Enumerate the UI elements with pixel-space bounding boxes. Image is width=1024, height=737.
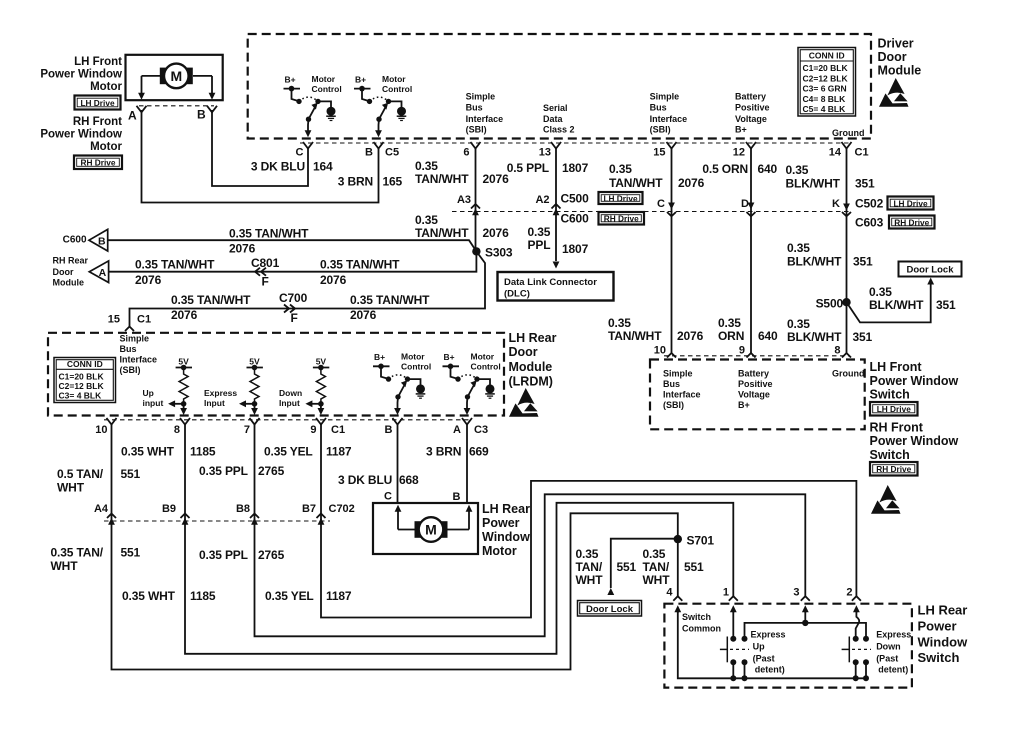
svg-text:Control: Control <box>401 362 431 372</box>
svg-text:C2=12 BLK: C2=12 BLK <box>803 73 849 83</box>
RH Drive tag C603 <box>889 216 935 229</box>
svg-text:13: 13 <box>539 147 551 159</box>
svg-text:Motor: Motor <box>401 352 425 362</box>
motor control switch 2 (LRDM) <box>443 352 501 416</box>
connector A2 <box>552 204 561 209</box>
wire rear motor lead B <box>448 529 470 531</box>
svg-text:Motor: Motor <box>312 74 336 84</box>
svg-text:0.35 TAN/WHT: 0.35 TAN/WHT <box>350 293 430 307</box>
pin 15 fork (DDM) <box>667 142 677 149</box>
svg-text:Control: Control <box>471 362 501 372</box>
svg-text:C801: C801 <box>251 256 280 270</box>
LH Drive tag <box>75 96 121 110</box>
svg-text:(SBI): (SBI) <box>663 400 684 410</box>
svg-text:Simple: Simple <box>466 91 496 101</box>
svg-text:551: 551 <box>617 560 637 574</box>
CONN ID table (LRDM) <box>54 358 116 403</box>
svg-text:LH Drive: LH Drive <box>877 404 912 414</box>
svg-text:3: 3 <box>793 587 799 599</box>
svg-text:Motor: Motor <box>90 81 122 93</box>
arrow into DLC <box>553 262 560 269</box>
svg-text:0.35: 0.35 <box>643 547 666 561</box>
svg-text:B: B <box>453 491 461 503</box>
connector A3 <box>471 204 480 209</box>
svg-text:(SBI): (SBI) <box>120 365 141 375</box>
svg-text:Module: Module <box>878 64 922 78</box>
svg-text:C502: C502 <box>855 197 884 211</box>
svg-text:0.35 TAN/WHT: 0.35 TAN/WHT <box>135 258 215 272</box>
svg-text:9: 9 <box>739 345 745 357</box>
svg-text:Module: Module <box>509 360 553 374</box>
wire express up right contact <box>745 623 867 639</box>
pin B fork <box>207 106 217 113</box>
resistor 5V up input <box>168 357 192 416</box>
svg-text:Power Window: Power Window <box>40 128 122 140</box>
svg-text:B8: B8 <box>236 503 250 515</box>
wire pin3 to junction <box>804 611 806 623</box>
pin A fork <box>137 106 147 113</box>
svg-text:BLK/WHT: BLK/WHT <box>869 298 924 312</box>
svg-text:2076: 2076 <box>320 273 347 287</box>
svg-text:Simple: Simple <box>120 334 150 344</box>
svg-text:7: 7 <box>244 424 250 436</box>
pin 10 fork (LRDM) <box>107 418 117 425</box>
pin 1 connector (rear switch) <box>729 596 738 601</box>
connector A4 <box>107 514 116 519</box>
svg-text:Window: Window <box>918 635 969 650</box>
svg-text:(Past: (Past <box>753 654 775 664</box>
resistor 5V down input <box>305 357 329 416</box>
pin 12 fork (DDM) <box>746 142 756 149</box>
connector C801 chevrons <box>255 268 260 276</box>
svg-text:10: 10 <box>95 424 107 436</box>
svg-text:0.35: 0.35 <box>576 547 599 561</box>
pin 3 connector (rear switch) <box>801 596 810 601</box>
svg-text:2076: 2076 <box>135 273 162 287</box>
svg-text:D: D <box>741 198 749 210</box>
svg-text:M: M <box>425 522 437 538</box>
svg-text:0.35 TAN/: 0.35 TAN/ <box>51 546 104 560</box>
svg-text:Power Window: Power Window <box>870 374 959 388</box>
svg-text:C4= 8 BLK: C4= 8 BLK <box>803 94 847 104</box>
svg-text:Switch: Switch <box>870 448 910 462</box>
wire 3 DK BLU 668 (pin B to motor C) <box>397 425 399 503</box>
svg-text:A2: A2 <box>535 194 549 206</box>
svg-text:CONN ID: CONN ID <box>67 359 103 369</box>
svg-text:Ground: Ground <box>832 369 865 379</box>
svg-text:TAN/WHT: TAN/WHT <box>415 172 469 186</box>
svg-text:Voltage: Voltage <box>735 114 767 124</box>
svg-text:1185: 1185 <box>190 589 216 603</box>
wire SBI 2076 (pin6 to S303) <box>475 149 477 250</box>
svg-text:Control: Control <box>312 84 342 94</box>
svg-text:WHT: WHT <box>57 481 85 495</box>
svg-text:Down: Down <box>876 641 901 651</box>
wire 0.35 BLK/WHT 351 (pin14 to pin8) <box>846 149 848 354</box>
pin 13 fork (DDM) <box>551 142 561 149</box>
svg-text:2076: 2076 <box>483 172 510 186</box>
svg-text:C702: C702 <box>329 503 355 515</box>
svg-text:Input: Input <box>204 398 225 408</box>
svg-text:Express: Express <box>204 388 237 398</box>
connector C <box>668 203 675 210</box>
svg-text:LH Rear: LH Rear <box>482 502 530 516</box>
svg-text:Bus: Bus <box>466 103 483 113</box>
svg-text:Data Link Connector: Data Link Connector <box>504 277 597 288</box>
wire pin9 to switch pin2 <box>321 425 856 618</box>
svg-text:S500: S500 <box>816 297 844 311</box>
svg-text:2765: 2765 <box>258 464 285 478</box>
motor control switch 2 (DDM) <box>354 74 412 138</box>
wire pin8 to switch pin1 <box>185 425 733 654</box>
svg-text:C5: C5 <box>385 147 399 159</box>
svg-text:10: 10 <box>654 345 666 357</box>
svg-text:LH Front: LH Front <box>870 360 923 374</box>
svg-text:3 BRN: 3 BRN <box>426 445 461 459</box>
svg-text:2076: 2076 <box>677 329 704 343</box>
svg-text:Door Lock: Door Lock <box>907 265 955 276</box>
svg-text:0.35 YEL: 0.35 YEL <box>264 445 313 459</box>
svg-text:TAN/WHT: TAN/WHT <box>608 329 662 343</box>
svg-text:B7: B7 <box>302 503 316 515</box>
connector B7 <box>317 514 326 519</box>
svg-text:RH Drive: RH Drive <box>876 464 911 474</box>
svg-text:0.35 YEL: 0.35 YEL <box>265 589 314 603</box>
svg-text:input: input <box>143 398 164 408</box>
svg-text:(SBI): (SBI) <box>650 125 671 135</box>
pin 14 fork (DDM) <box>842 142 852 149</box>
svg-text:Door: Door <box>878 50 907 64</box>
LH rear power window motor box <box>373 503 478 554</box>
pin C fork (DDM) <box>303 142 313 149</box>
LH front power window motor box <box>126 55 223 100</box>
svg-text:6: 6 <box>463 147 469 159</box>
svg-text:4: 4 <box>666 587 673 599</box>
svg-text:2076: 2076 <box>678 176 705 190</box>
svg-text:Ground: Ground <box>832 128 865 138</box>
svg-text:2076: 2076 <box>171 308 198 322</box>
wire pin10 to switch common <box>112 425 678 670</box>
wire A to S303 <box>109 251 477 271</box>
svg-text:B: B <box>197 108 206 122</box>
svg-text:C5= 4 BLK: C5= 4 BLK <box>803 104 847 114</box>
svg-text:Simple: Simple <box>650 91 680 101</box>
svg-text:Bus: Bus <box>120 344 137 354</box>
svg-text:0.35: 0.35 <box>528 225 551 239</box>
svg-text:2: 2 <box>846 587 852 599</box>
wire 3 BRN 165 <box>142 110 379 203</box>
svg-text:C500: C500 <box>561 192 590 206</box>
driver door module connector edge line <box>300 142 852 144</box>
LRDM bottom connector edge line <box>104 419 472 421</box>
svg-text:Module: Module <box>53 278 85 288</box>
svg-text:Up: Up <box>143 388 154 398</box>
splice S303 <box>472 247 480 255</box>
data link connector (DLC) box <box>498 272 614 301</box>
svg-text:0.35: 0.35 <box>787 317 810 331</box>
svg-text:Class 2: Class 2 <box>543 124 575 134</box>
svg-text:C3= 4 BLK: C3= 4 BLK <box>59 391 103 401</box>
svg-text:K: K <box>832 198 840 210</box>
svg-text:C1=20 BLK: C1=20 BLK <box>59 371 105 381</box>
svg-text:detent): detent) <box>755 665 785 675</box>
pin 1 arrow (rear switch) <box>730 605 737 612</box>
svg-text:RH Drive: RH Drive <box>80 158 115 168</box>
svg-text:1807: 1807 <box>562 242 589 256</box>
svg-text:0.35 WHT: 0.35 WHT <box>121 445 175 459</box>
svg-text:B+: B+ <box>284 74 295 84</box>
svg-text:Driver: Driver <box>878 37 914 51</box>
svg-text:Switch: Switch <box>682 612 711 622</box>
svg-text:A3: A3 <box>457 194 471 206</box>
arrow to door lock <box>927 278 934 285</box>
wire pin7 to switch pin3 <box>255 425 806 636</box>
svg-text:RH Front: RH Front <box>73 116 122 128</box>
svg-text:Bus: Bus <box>663 379 680 389</box>
pin 10 fork (front switch) <box>667 353 676 358</box>
svg-text:LH Drive: LH Drive <box>893 198 928 208</box>
svg-text:Motor: Motor <box>382 74 406 84</box>
svg-text:0.35: 0.35 <box>869 285 892 299</box>
svg-text:S303: S303 <box>485 246 513 260</box>
wire motor lead A <box>142 75 162 77</box>
svg-text:B9: B9 <box>162 503 176 515</box>
RH Drive tag (front switch) <box>870 462 918 476</box>
wire S500 to door lock <box>847 283 931 322</box>
svg-text:0.35 TAN/WHT: 0.35 TAN/WHT <box>229 227 309 241</box>
resistor 5V express input <box>239 357 263 416</box>
svg-text:C600: C600 <box>63 235 87 246</box>
svg-text:C1: C1 <box>137 314 151 326</box>
svg-text:TAN/WHT: TAN/WHT <box>415 226 469 240</box>
svg-text:Interface: Interface <box>466 114 504 124</box>
svg-text:Input: Input <box>279 398 300 408</box>
LH/RH front power window switch dashed box <box>650 360 865 430</box>
svg-text:1187: 1187 <box>326 589 352 603</box>
connector C700 chevrons <box>290 305 295 313</box>
svg-text:668: 668 <box>399 473 419 487</box>
svg-text:669: 669 <box>469 445 489 459</box>
svg-text:LH Drive: LH Drive <box>80 98 115 108</box>
svg-text:B: B <box>385 424 393 436</box>
svg-text:A: A <box>453 424 461 436</box>
svg-text:M: M <box>170 68 182 84</box>
pin 2 arrow (rear switch) <box>853 605 860 612</box>
svg-text:0.35 PPL: 0.35 PPL <box>199 464 248 478</box>
pin 7 fork (LRDM) <box>250 418 260 425</box>
svg-text:A4: A4 <box>94 503 109 515</box>
svg-text:WHT: WHT <box>51 559 79 573</box>
wire 3 DK BLU 164 <box>212 110 308 186</box>
LH Drive tag (front switch) <box>870 402 918 416</box>
svg-text:B+: B+ <box>374 352 385 362</box>
svg-text:TAN/: TAN/ <box>576 560 603 574</box>
svg-text:LH Drive: LH Drive <box>603 193 638 203</box>
connector C600 triangle B <box>89 229 108 251</box>
ESD symbol (LRDM) <box>509 388 539 417</box>
svg-text:Motor: Motor <box>482 544 517 558</box>
svg-text:640: 640 <box>758 162 778 176</box>
svg-text:Power Window: Power Window <box>870 434 959 448</box>
svg-text:WHT: WHT <box>576 573 604 587</box>
pin 15 fork (LRDM) <box>125 327 134 332</box>
wire pin2 with hop <box>856 611 860 637</box>
svg-text:(Past: (Past <box>876 654 898 664</box>
svg-text:Up: Up <box>753 641 765 651</box>
wire SBI (pin15 to pin10) <box>671 149 673 354</box>
svg-text:0.35 PPL: 0.35 PPL <box>199 548 248 562</box>
svg-text:PPL: PPL <box>528 238 551 252</box>
svg-text:14: 14 <box>829 147 842 159</box>
wire C600 to S303 <box>108 240 477 251</box>
door lock box (upper) <box>899 262 962 277</box>
svg-text:3 DK BLU: 3 DK BLU <box>338 473 392 487</box>
svg-text:LH Front: LH Front <box>74 56 122 68</box>
wire S701 to door lock <box>611 539 678 588</box>
svg-text:0.5 PPL: 0.5 PPL <box>507 161 549 175</box>
svg-text:0.35: 0.35 <box>415 213 438 227</box>
pin 6 fork (DDM) <box>471 142 481 149</box>
svg-text:640: 640 <box>758 329 778 343</box>
contact dots express up <box>730 636 736 642</box>
svg-text:8: 8 <box>174 424 180 436</box>
svg-text:Serial: Serial <box>543 103 568 113</box>
svg-text:A: A <box>99 267 107 279</box>
svg-text:0.35 TAN/WHT: 0.35 TAN/WHT <box>171 293 251 307</box>
svg-text:551: 551 <box>121 467 141 481</box>
svg-text:B+: B+ <box>355 74 366 84</box>
motor M LH front <box>160 64 193 89</box>
svg-text:351: 351 <box>936 298 956 312</box>
svg-text:B: B <box>98 235 106 247</box>
wire C700 row to S303 <box>130 251 486 326</box>
wire switch common rail <box>678 611 867 678</box>
svg-text:1185: 1185 <box>190 445 216 459</box>
svg-text:Data: Data <box>543 114 564 124</box>
svg-text:551: 551 <box>684 560 704 574</box>
connector D <box>748 203 755 210</box>
svg-text:Power: Power <box>918 619 957 634</box>
svg-text:Power Window: Power Window <box>40 69 122 81</box>
door lock box (lower) <box>578 601 642 617</box>
svg-text:15: 15 <box>108 314 120 326</box>
svg-text:C: C <box>657 198 665 210</box>
svg-text:551: 551 <box>121 546 141 560</box>
svg-text:2765: 2765 <box>258 548 285 562</box>
svg-text:RH Drive: RH Drive <box>604 214 639 224</box>
svg-text:Switch: Switch <box>870 388 910 402</box>
svg-text:0.5 ORN: 0.5 ORN <box>702 162 748 176</box>
svg-text:Motor: Motor <box>90 141 122 153</box>
svg-text:Down: Down <box>279 388 302 398</box>
svg-text:TAN/: TAN/ <box>643 560 670 574</box>
svg-text:(DLC): (DLC) <box>504 289 530 300</box>
pin 8 fork (LRDM) <box>180 418 190 425</box>
svg-text:2076: 2076 <box>229 242 256 256</box>
svg-text:0.35: 0.35 <box>718 316 741 330</box>
svg-text:Door Lock: Door Lock <box>586 604 634 615</box>
svg-text:Window: Window <box>482 530 530 544</box>
svg-text:Positive: Positive <box>735 103 770 113</box>
LH Drive tag C502 <box>888 197 934 210</box>
LH rear door module (LRDM) dashed box <box>48 333 504 416</box>
pin 3 arrow (rear switch) <box>802 605 809 612</box>
svg-text:0.35 TAN/WHT: 0.35 TAN/WHT <box>320 258 400 272</box>
actuator express down <box>848 637 850 663</box>
svg-text:C: C <box>296 147 304 159</box>
svg-text:1: 1 <box>723 587 729 599</box>
svg-text:Motor: Motor <box>471 352 495 362</box>
svg-text:C603: C603 <box>855 216 884 230</box>
svg-text:Battery: Battery <box>738 369 769 379</box>
svg-text:BLK/WHT: BLK/WHT <box>787 255 842 269</box>
svg-text:351: 351 <box>853 330 873 344</box>
svg-text:B+: B+ <box>738 400 750 410</box>
svg-text:Express: Express <box>751 629 786 639</box>
svg-text:BLK/WHT: BLK/WHT <box>786 177 841 191</box>
svg-text:Switch: Switch <box>918 650 960 665</box>
svg-text:Battery: Battery <box>735 91 766 101</box>
pin 8 fork (front switch) <box>842 353 851 358</box>
svg-text:Door: Door <box>509 345 538 359</box>
svg-text:164: 164 <box>313 160 333 174</box>
pin 4 connector (rear switch) <box>673 596 682 601</box>
svg-text:351: 351 <box>855 177 875 191</box>
svg-text:0.5 TAN/: 0.5 TAN/ <box>57 467 104 481</box>
LH front switch connector edge line <box>664 355 850 357</box>
svg-text:8: 8 <box>834 345 840 357</box>
svg-text:2076: 2076 <box>350 308 377 322</box>
svg-text:1187: 1187 <box>326 445 352 459</box>
connector B8 <box>250 514 259 519</box>
wires lower contacts to rail <box>732 662 734 678</box>
wire 0.5 ORN 640 (pin12 to pin9) <box>750 149 752 354</box>
svg-text:F: F <box>291 311 298 325</box>
svg-text:Express: Express <box>876 629 911 639</box>
svg-text:0.35: 0.35 <box>786 163 809 177</box>
pin A fork (LRDM) <box>462 418 472 425</box>
svg-text:0.35: 0.35 <box>415 159 438 173</box>
svg-text:Interface: Interface <box>120 355 158 365</box>
ESD symbol (front switch) <box>871 485 901 514</box>
svg-text:C3= 6 GRN: C3= 6 GRN <box>803 84 847 94</box>
svg-text:Common: Common <box>682 624 721 634</box>
wire rear motor lead C <box>398 529 415 531</box>
connector K arrow <box>843 204 850 211</box>
svg-text:12: 12 <box>733 147 745 159</box>
svg-text:Simple: Simple <box>663 369 693 379</box>
connector C702 dashed line <box>104 520 330 522</box>
splice S500 <box>842 298 850 306</box>
motor M LH rear <box>415 517 448 542</box>
LH Drive tag C500 <box>599 192 643 204</box>
pin 2 connector (rear switch) <box>852 596 861 601</box>
svg-text:3 DK BLU: 3 DK BLU <box>251 160 305 174</box>
svg-text:0.35: 0.35 <box>609 162 632 176</box>
svg-text:C700: C700 <box>279 291 308 305</box>
svg-text:0.35: 0.35 <box>787 241 810 255</box>
contact dots express down <box>853 636 859 642</box>
connector RH rear door module triangle A <box>89 261 108 283</box>
svg-text:Power: Power <box>482 516 520 530</box>
svg-text:3 BRN: 3 BRN <box>338 175 373 189</box>
svg-text:Control: Control <box>382 84 412 94</box>
svg-text:9: 9 <box>310 424 316 436</box>
svg-text:C: C <box>384 491 392 503</box>
RH Drive tag C600 <box>599 212 645 225</box>
svg-text:LH Rear: LH Rear <box>509 331 557 345</box>
connector B9 <box>181 514 190 519</box>
